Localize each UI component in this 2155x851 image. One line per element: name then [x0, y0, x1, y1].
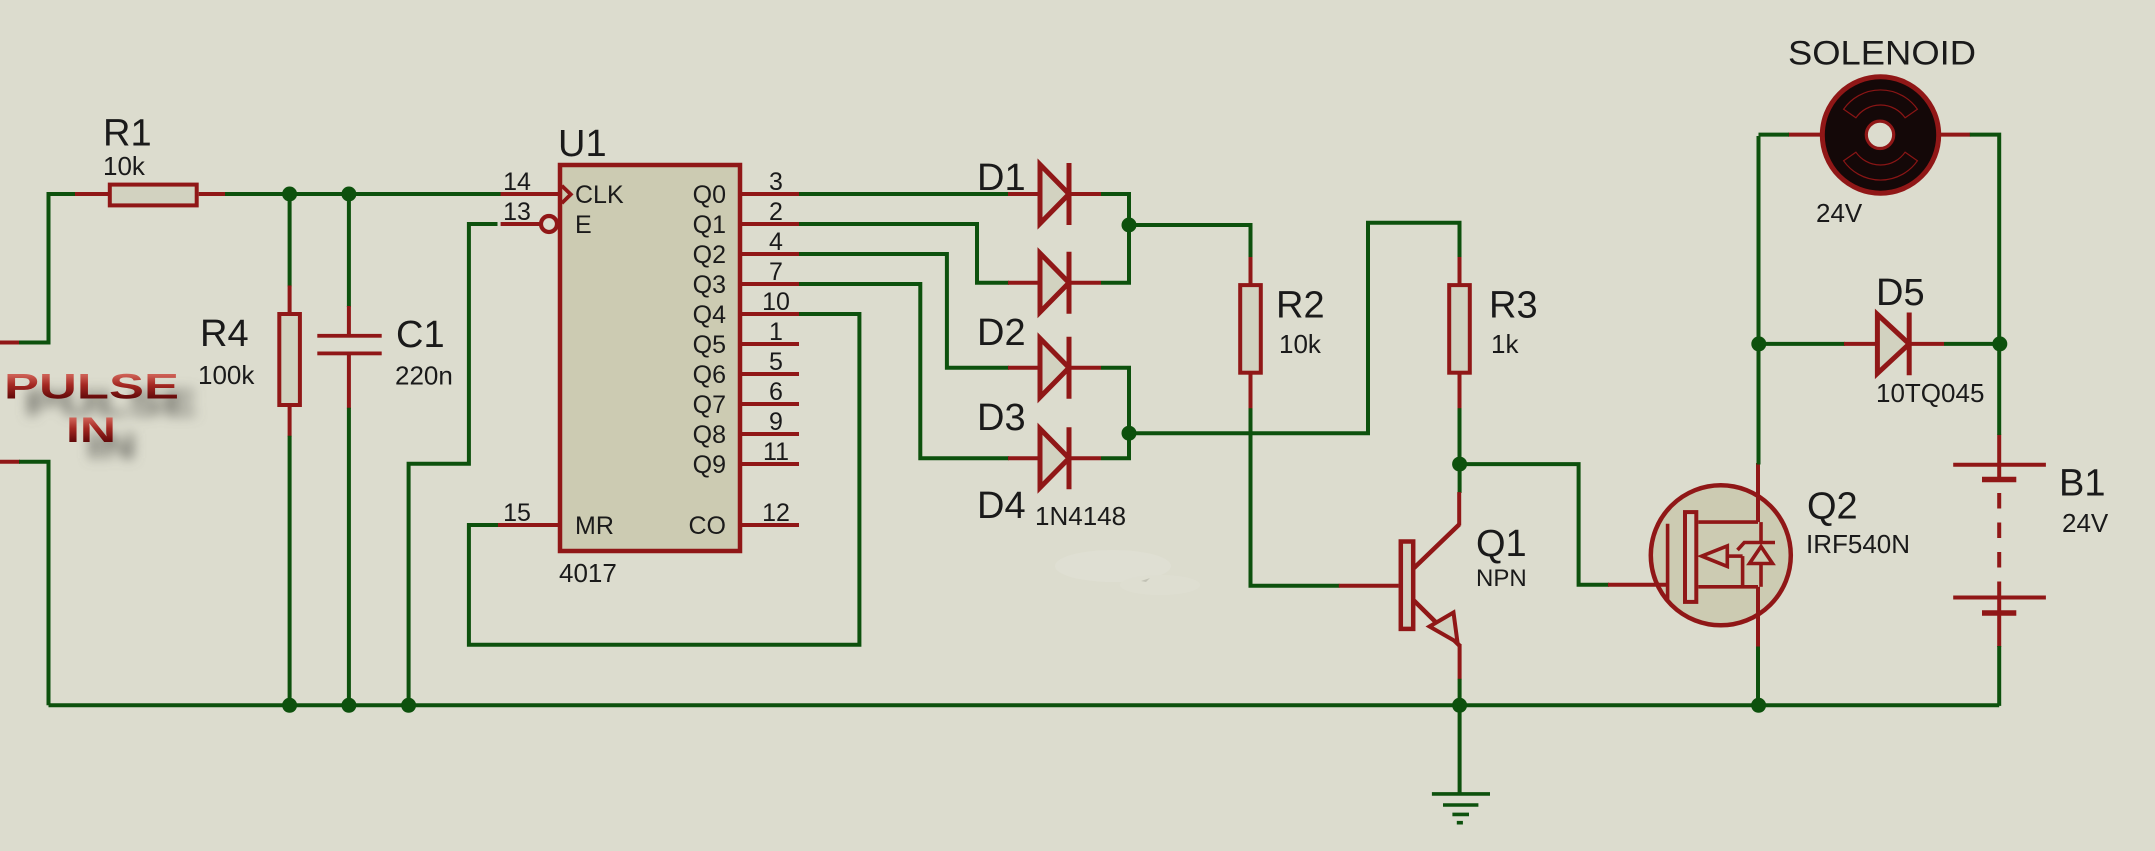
svg-text:Q2: Q2 — [1807, 486, 1858, 528]
wire Q2 to D3 — [799, 254, 1009, 368]
wire solenoid right lead to node E — [1970, 135, 1999, 345]
svg-text:Q8: Q8 — [693, 421, 726, 449]
svg-text:Q9: Q9 — [693, 451, 726, 479]
svg-text:1N4148: 1N4148 — [1035, 501, 1126, 531]
svg-text:14: 14 — [503, 168, 531, 196]
solenoid L1 24V — [1822, 77, 1938, 193]
transistor Q2 IRF540N MOSFET — [1651, 485, 1791, 625]
wire Q1 to D2 — [799, 224, 1009, 283]
smudge artifact — [1055, 550, 1200, 595]
svg-text:E: E — [575, 211, 592, 239]
svg-text:10TQ045: 10TQ045 — [1876, 378, 1984, 408]
resistor R2 — [1249, 257, 1253, 284]
junction node E (solenoid/D5/B1) — [1992, 336, 2007, 351]
wire node D to Q1 collector — [1458, 464, 1462, 493]
svg-text:13: 13 — [503, 198, 531, 226]
junction rail R4 — [282, 698, 297, 713]
svg-text:24V: 24V — [2062, 508, 2109, 538]
wire Q3 to D4 — [799, 284, 1009, 458]
IC U1 4017 decade counter — [560, 165, 740, 551]
wire solenoid left lead — [1759, 133, 1790, 137]
wire Q0 to D1 — [799, 192, 1009, 196]
junction node C (D3 D4) — [1122, 426, 1137, 441]
svg-text:CO: CO — [689, 512, 727, 540]
svg-text:Q1: Q1 — [693, 211, 726, 239]
wire C1 to ground rail — [347, 408, 351, 706]
capacitor C1 — [347, 306, 351, 335]
svg-text:5: 5 — [769, 348, 783, 376]
svg-text:Q4: Q4 — [693, 301, 726, 329]
wire D3 cathode to node C — [1101, 368, 1129, 434]
svg-text:1k: 1k — [1491, 329, 1519, 359]
svg-text:R4: R4 — [200, 313, 249, 355]
wire node C to R3 — [1129, 223, 1460, 433]
wire node E to B1 — [1997, 344, 2001, 435]
svg-text:Q2: Q2 — [693, 241, 726, 269]
wire node A2 to C1 — [347, 194, 351, 307]
diode D2 — [1008, 281, 1040, 285]
svg-text:IN: IN — [66, 411, 116, 450]
svg-text:Q3: Q3 — [693, 271, 726, 299]
junction node F (drain/solenoid/D5) — [1751, 336, 1766, 351]
svg-text:D2: D2 — [977, 312, 1026, 354]
transistor Q1 NPN — [1457, 492, 1461, 525]
wire R4 to ground rail — [288, 436, 292, 706]
wire U1 Q4 pin10 to MR pin15 — [469, 314, 860, 645]
svg-text:15: 15 — [503, 499, 531, 527]
svg-text:9: 9 — [769, 408, 783, 436]
svg-text:1: 1 — [769, 318, 783, 346]
junction rail C1 — [341, 698, 356, 713]
svg-text:R1: R1 — [103, 113, 152, 155]
wire B1 to ground rail — [1997, 646, 2001, 706]
junction node A2 — [341, 187, 356, 202]
wire node F to D5 anode — [1759, 342, 1845, 346]
junction rail Q2 source — [1751, 698, 1766, 713]
svg-text:100k: 100k — [198, 360, 255, 390]
wire D5 cathode to node E — [1944, 342, 2000, 346]
svg-text:R2: R2 — [1276, 285, 1325, 327]
svg-text:4017: 4017 — [559, 558, 617, 588]
wire input to R1 — [19, 194, 76, 343]
wire R1 to U1 CLK — [225, 192, 561, 196]
svg-text:NPN: NPN — [1476, 565, 1527, 592]
svg-text:Q6: Q6 — [693, 361, 726, 389]
svg-text:6: 6 — [769, 378, 783, 406]
svg-text:Q7: Q7 — [693, 391, 726, 419]
svg-text:PULSE: PULSE — [4, 368, 179, 407]
svg-text:CLK: CLK — [575, 181, 624, 209]
wire D1 cathode to node B — [1101, 194, 1129, 226]
svg-text:Q5: Q5 — [693, 331, 726, 359]
wire D4 cathode to node C — [1101, 432, 1129, 458]
wire R3 to node D — [1458, 408, 1462, 464]
svg-text:2: 2 — [769, 198, 783, 226]
svg-text:C1: C1 — [396, 314, 445, 356]
wire Q2 drain to solenoid left — [1757, 136, 1761, 465]
wire R2 to Q1 base — [1251, 408, 1340, 586]
svg-text:4: 4 — [769, 228, 783, 256]
svg-text:10: 10 — [762, 288, 790, 316]
svg-text:12: 12 — [762, 499, 790, 527]
wire input bottom to rail — [19, 462, 49, 706]
svg-text:SOLENOID: SOLENOID — [1788, 35, 1976, 73]
wire node B to R2 — [1129, 225, 1251, 258]
svg-text:IRF540N: IRF540N — [1806, 529, 1910, 559]
diode D5 — [1844, 342, 1876, 346]
junction rail E — [401, 698, 416, 713]
svg-text:10k: 10k — [103, 151, 146, 181]
svg-text:D1: D1 — [977, 157, 1026, 199]
svg-text:MR: MR — [575, 512, 614, 540]
svg-text:D5: D5 — [1876, 272, 1925, 314]
ground — [1458, 705, 1462, 792]
svg-text:24V: 24V — [1816, 198, 1863, 228]
junction rail Q1/ground — [1452, 698, 1467, 713]
terminal input top — [0, 341, 20, 345]
svg-text:11: 11 — [763, 438, 789, 466]
junction node B (D1 D2) — [1122, 218, 1137, 233]
svg-text:10k: 10k — [1279, 329, 1322, 359]
wire node A to R4 — [288, 194, 292, 287]
svg-text:R3: R3 — [1489, 285, 1538, 327]
terminal input bottom — [0, 460, 20, 464]
junction node A — [282, 187, 297, 202]
svg-text:3: 3 — [769, 168, 783, 196]
svg-text:Q1: Q1 — [1476, 523, 1527, 565]
svg-text:D4: D4 — [977, 485, 1026, 527]
svg-text:U1: U1 — [558, 123, 607, 165]
diode D1 — [1008, 192, 1040, 196]
resistor R3 — [1458, 257, 1462, 284]
junction node D — [1452, 457, 1467, 472]
wire node D to Q2 gate — [1460, 464, 1609, 585]
wire ground rail — [49, 703, 2000, 707]
resistor R1 — [75, 192, 108, 196]
svg-text:220n: 220n — [395, 361, 453, 391]
svg-text:7: 7 — [769, 258, 783, 286]
wire D2 cathode to node B — [1101, 224, 1129, 283]
wire Q2 source to ground rail — [1756, 647, 1760, 706]
diode D3 — [1008, 366, 1040, 370]
svg-text:D3: D3 — [977, 397, 1026, 439]
wire U1 pin13 E to ground rail — [409, 224, 498, 705]
resistor R4 — [288, 286, 292, 314]
diode D4 — [1008, 456, 1040, 460]
svg-text:Q0: Q0 — [693, 181, 726, 209]
wire Q1 emitter to ground rail — [1458, 679, 1462, 706]
svg-text:B1: B1 — [2059, 462, 2105, 504]
battery B1 24V — [1997, 434, 2001, 479]
